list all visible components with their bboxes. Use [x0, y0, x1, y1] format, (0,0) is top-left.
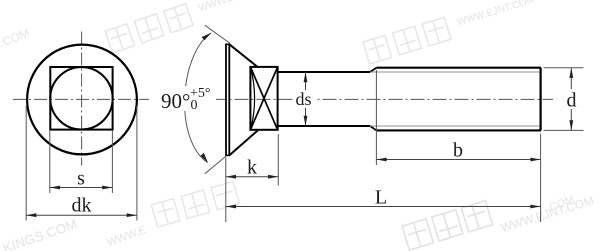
watermark bottom-left latin	[1, 196, 148, 251]
end view: head outer circle dk	[27, 45, 137, 155]
shank top line	[278, 71, 370, 73]
dimension ds: arrow line lower	[305, 108, 307, 126]
svg-text:ds: ds	[295, 89, 311, 109]
dimension s: extension lines	[49, 131, 51, 193]
dimension b: extension line left	[375, 70, 377, 165]
watermark top-left latin .COM	[0, 26, 31, 50]
cone/neck intersection curve	[251, 68, 255, 130]
watermark center 易紧 fragment	[151, 182, 239, 228]
svg-text:s: s	[77, 168, 85, 190]
angle dim: arc	[185, 33, 211, 163]
dimension dk: extension lines	[25, 106, 27, 221]
angle dim: lower extension line	[205, 156, 227, 174]
angle dim: upper extension line	[205, 25, 230, 43]
svg-text:90°: 90°	[161, 89, 190, 113]
thread runout flare top	[370, 68, 376, 72]
watermark top-right 易紧通 block	[363, 0, 539, 64]
dimension s: dimension line with arrows	[50, 187, 113, 189]
dimension d: arrow line	[570, 68, 572, 89]
dimension k: dimension line with arrows	[226, 176, 278, 178]
svg-text:0: 0	[191, 98, 198, 113]
thread runout flare bottom	[370, 126, 376, 130]
dimension k: left extension (shared with L)	[225, 158, 227, 223]
thread minor diameter top	[370, 71, 540, 73]
side view: head flat face (two vertical lines)	[225, 44, 227, 155]
angle dim: white gap for text	[158, 86, 216, 111]
thread major diameter top	[376, 67, 541, 69]
svg-text:L: L	[375, 187, 387, 209]
end view: inscribed circle	[50, 67, 112, 129]
dimension d: extension lines	[544, 67, 584, 69]
side view: countersunk cone upper edge	[229, 44, 258, 67]
bolt end face	[539, 68, 541, 131]
dimension b: dimension line with arrows	[376, 159, 540, 161]
svg-text:k: k	[247, 157, 257, 179]
svg-text:d: d	[567, 90, 577, 112]
dimension L: dimension line with arrows	[226, 206, 541, 208]
dimension b: extension line right (shared with L)	[540, 134, 542, 223]
dimension dk: dimension line with arrows	[26, 214, 137, 216]
dimension k: extension line right	[277, 134, 279, 186]
dimension ds: arrow line upper	[305, 72, 307, 90]
end view: vertical centerline	[81, 32, 83, 166]
end view: square neck outline	[50, 67, 112, 130]
watermark bottom-right 易紧通 block	[402, 170, 595, 251]
side view: main centerline	[213, 98, 554, 100]
svg-text:dk: dk	[72, 195, 92, 217]
thread minor diameter bottom	[370, 125, 540, 127]
dimension ds: white backing and label	[293, 90, 315, 107]
square neck box outline	[250, 67, 277, 130]
end view: horizontal centerline	[13, 98, 149, 100]
square neck X diagonal 2	[250, 67, 277, 130]
square neck X diagonal 1	[250, 67, 277, 130]
watermark right-mid .COM	[545, 194, 576, 215]
shank bottom line	[278, 125, 370, 127]
thread major diameter bottom	[376, 129, 541, 131]
side view: countersunk cone lower edge	[229, 130, 258, 155]
watermark top-center 易紧通 block	[105, 0, 279, 53]
svg-text:b: b	[453, 140, 463, 162]
